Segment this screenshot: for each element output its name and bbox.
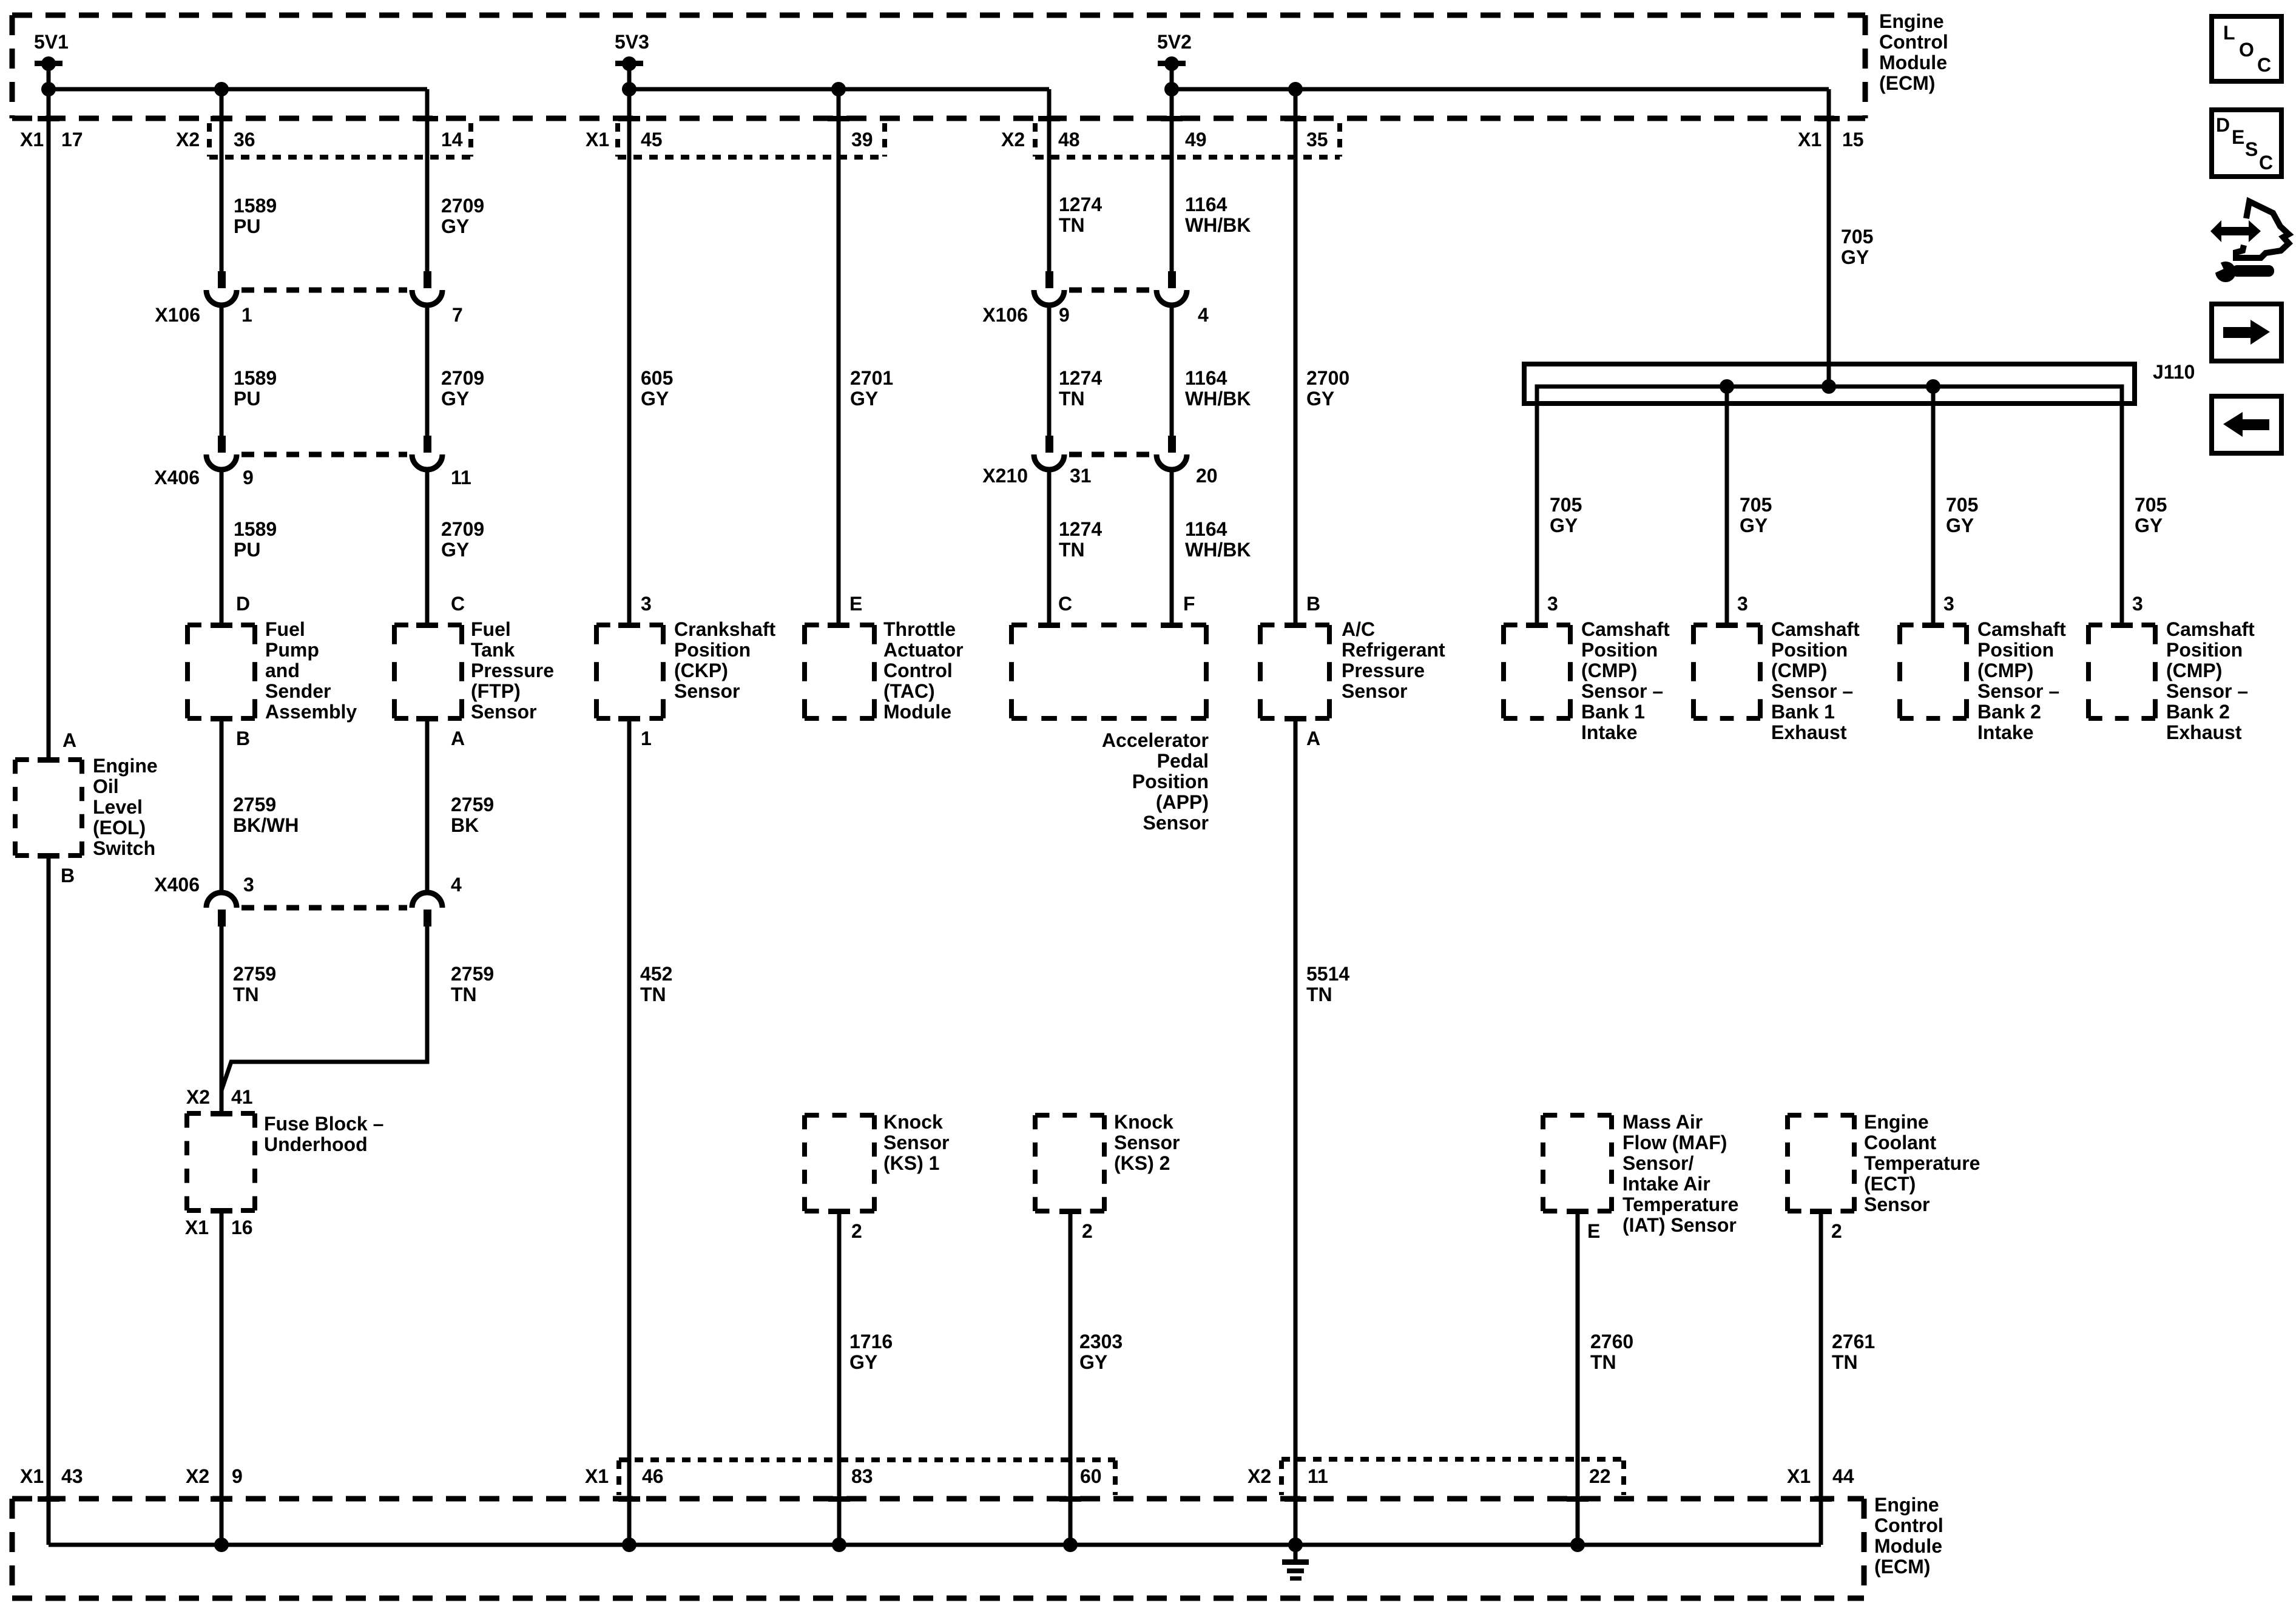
svg-text:Module: Module xyxy=(1874,1535,1942,1557)
svg-text:605: 605 xyxy=(641,367,673,389)
svg-text:705: 705 xyxy=(1946,494,1978,516)
svg-text:Engine: Engine xyxy=(93,755,158,777)
svg-text:(APP): (APP) xyxy=(1156,791,1209,813)
svg-text:A/C: A/C xyxy=(1342,618,1375,640)
svg-text:WH/BK: WH/BK xyxy=(1185,539,1251,561)
svg-text:46: 46 xyxy=(642,1465,664,1487)
svg-text:41: 41 xyxy=(231,1086,253,1108)
svg-text:1274: 1274 xyxy=(1059,367,1102,389)
wire 2759 TN to ECM X2-9 xyxy=(220,1210,224,1545)
component box Engine Coolant Temperature (ECT) Sensor xyxy=(1788,1115,1854,1211)
svg-text:1589: 1589 xyxy=(234,195,277,217)
svg-text:39: 39 xyxy=(851,129,873,150)
svg-text:A: A xyxy=(62,729,76,751)
svg-text:D: D xyxy=(236,593,250,615)
svg-text:Throttle: Throttle xyxy=(883,618,956,640)
svg-text:X1: X1 xyxy=(20,1465,44,1487)
svg-text:15: 15 xyxy=(1842,129,1864,150)
svg-text:11: 11 xyxy=(451,467,471,488)
svg-text:2700: 2700 xyxy=(1306,367,1349,389)
svg-text:1164: 1164 xyxy=(1185,367,1227,389)
svg-text:(CKP): (CKP) xyxy=(674,660,728,681)
svg-text:X406: X406 xyxy=(154,467,200,488)
component box A/C Refrigerant Pressure Sensor xyxy=(1260,625,1329,718)
svg-text:1589: 1589 xyxy=(234,367,277,389)
svg-text:5V2: 5V2 xyxy=(1157,31,1192,53)
wire label 2709 GY row1 xyxy=(441,195,484,237)
svg-text:(ECM): (ECM) xyxy=(1874,1556,1930,1578)
svg-text:2: 2 xyxy=(851,1220,862,1242)
svg-text:7: 7 xyxy=(452,304,463,326)
svg-text:and: and xyxy=(265,660,300,681)
pin stubs on CMP boxes xyxy=(1526,623,2133,628)
svg-text:Sensor –: Sensor – xyxy=(1581,680,1663,702)
wire label 705 GY 3 xyxy=(1946,494,1978,536)
junction dots on ground bus xyxy=(214,1538,1585,1552)
svg-text:Intake Air: Intake Air xyxy=(1622,1173,1710,1195)
svg-text:31: 31 xyxy=(1070,465,1092,487)
svg-text:1: 1 xyxy=(641,727,652,749)
svg-text:Position: Position xyxy=(1977,639,2054,661)
svg-text:35: 35 xyxy=(1306,129,1328,150)
svg-text:5V1: 5V1 xyxy=(34,31,69,53)
svg-text:Exhaust: Exhaust xyxy=(2166,721,2242,743)
svg-text:GY: GY xyxy=(1306,388,1334,410)
wire 5514 TN A/C to ECM xyxy=(1294,718,1298,1545)
svg-text:43: 43 xyxy=(61,1465,83,1487)
svg-text:2701: 2701 xyxy=(850,367,893,389)
wire label 2761 TN xyxy=(1832,1331,1875,1373)
wire 39 to TAC module xyxy=(837,89,841,625)
wire 1274 TN mid xyxy=(1047,305,1052,436)
svg-text:Pump: Pump xyxy=(265,639,319,661)
label A/C Refrigerant Pressure Sensor xyxy=(1342,618,1445,702)
svg-text:E: E xyxy=(1587,1220,1600,1242)
svg-text:Bank 1: Bank 1 xyxy=(1771,701,1835,723)
svg-text:GY: GY xyxy=(441,539,469,561)
svg-text:Sensor: Sensor xyxy=(1114,1132,1180,1153)
svg-text:17: 17 xyxy=(61,129,83,150)
svg-text:Crankshaft: Crankshaft xyxy=(674,618,776,640)
svg-text:A: A xyxy=(451,727,465,749)
svg-text:C: C xyxy=(2259,152,2273,174)
ground symbol xyxy=(1282,1545,1309,1581)
svg-text:X2: X2 xyxy=(186,1465,209,1487)
label CMP Sensor Bank 1 Exhaust xyxy=(1771,618,1860,743)
svg-text:5V3: 5V3 xyxy=(615,31,649,53)
component box Knock Sensor (KS) 2 xyxy=(1035,1115,1104,1211)
wire label 705 GY 4 xyxy=(2135,494,2167,536)
wire label 1164 WH/BK row2 xyxy=(1185,367,1251,410)
svg-text:GY: GY xyxy=(1079,1351,1107,1373)
svg-text:BK/WH: BK/WH xyxy=(233,814,299,836)
svg-text:705: 705 xyxy=(1740,494,1772,516)
svg-text:Temperature: Temperature xyxy=(1864,1152,1980,1174)
icon back arrow box xyxy=(2212,396,2281,453)
component box Camshaft Position (CMP) Sensor - Bank 1 Exhaust xyxy=(1693,625,1760,718)
svg-text:TN: TN xyxy=(233,984,259,1005)
label Knock Sensor (KS) 2 xyxy=(1114,1111,1180,1174)
svg-text:Position: Position xyxy=(1132,771,1209,792)
svg-text:Sensor: Sensor xyxy=(471,701,536,723)
svg-text:2709: 2709 xyxy=(441,518,484,540)
svg-text:2709: 2709 xyxy=(441,195,484,217)
svg-text:Knock: Knock xyxy=(1114,1111,1173,1133)
svg-text:Temperature: Temperature xyxy=(1622,1193,1738,1215)
label MAF/IAT Sensor xyxy=(1622,1111,1738,1236)
svg-text:TN: TN xyxy=(1059,388,1085,410)
svg-text:Sensor –: Sensor – xyxy=(1771,680,1853,702)
svg-text:2759: 2759 xyxy=(451,794,494,815)
svg-text:O: O xyxy=(2239,39,2254,61)
svg-text:Mass Air: Mass Air xyxy=(1622,1111,1703,1133)
svg-text:TN: TN xyxy=(451,984,477,1005)
icon double arrow with wrench xyxy=(2209,201,2289,282)
svg-text:Pressure: Pressure xyxy=(471,660,554,681)
wire label 2709 GY row3 xyxy=(441,518,484,561)
svg-text:1589: 1589 xyxy=(234,518,277,540)
svg-text:D: D xyxy=(2216,114,2230,136)
component box Camshaft Position (CMP) Sensor - Bank 2 Intake xyxy=(1900,625,1967,718)
svg-text:B: B xyxy=(1306,593,1320,615)
component box Engine Oil Level (EOL) Switch xyxy=(15,760,82,856)
svg-text:2759: 2759 xyxy=(233,794,276,815)
wire label 705 GY 1 xyxy=(1550,494,1582,536)
svg-text:44: 44 xyxy=(1832,1465,1854,1487)
svg-text:BK: BK xyxy=(451,814,479,836)
icon LOC box xyxy=(2212,16,2281,81)
wire 1589 PU mid xyxy=(220,305,224,436)
svg-text:TN: TN xyxy=(1306,984,1332,1005)
svg-text:WH/BK: WH/BK xyxy=(1185,388,1251,410)
label Fuel Tank Pressure (FTP) Sensor xyxy=(471,618,554,723)
svg-text:Exhaust: Exhaust xyxy=(1771,721,1847,743)
svg-text:Tank: Tank xyxy=(471,639,515,661)
svg-text:X1: X1 xyxy=(1787,1465,1811,1487)
svg-text:Level: Level xyxy=(93,796,143,818)
wire label 2759 TN right xyxy=(451,963,494,1005)
svg-text:Sensor: Sensor xyxy=(1864,1193,1930,1215)
svg-text:TN: TN xyxy=(1059,214,1085,236)
fuse block pin labels X2 41 xyxy=(186,1086,253,1108)
X406/X210 labels xyxy=(154,465,1217,488)
fuse block pin labels X1 16 xyxy=(185,1217,253,1238)
svg-text:Module: Module xyxy=(1879,52,1947,73)
svg-text:1716: 1716 xyxy=(849,1331,893,1352)
svg-text:(ECM): (ECM) xyxy=(1879,72,1935,94)
svg-text:2: 2 xyxy=(1082,1220,1093,1242)
pin letters below component boxes xyxy=(236,727,1320,749)
pin stubs fuse block xyxy=(211,1111,232,1214)
svg-text:49: 49 xyxy=(1185,129,1207,150)
svg-text:B: B xyxy=(236,727,250,749)
wire 2709 GY lower xyxy=(425,470,430,625)
wire label 5514 TN xyxy=(1306,963,1349,1005)
svg-text:Assembly: Assembly xyxy=(265,701,357,723)
svg-text:X1: X1 xyxy=(585,1465,609,1487)
svg-text:J110: J110 xyxy=(2153,361,2195,383)
wire 14 upper xyxy=(425,89,430,271)
wire 2759 TN left xyxy=(220,926,224,1113)
label ECT Sensor xyxy=(1864,1111,1980,1215)
ECM bottom pin labels xyxy=(20,1465,1854,1487)
pin letter A EOL xyxy=(62,729,76,751)
svg-text:A: A xyxy=(1306,727,1320,749)
component box Fuse Block - Underhood xyxy=(187,1113,255,1210)
svg-text:4: 4 xyxy=(451,874,462,896)
X406 3/4 labels xyxy=(154,874,462,896)
icon DESC box xyxy=(2212,110,2281,177)
svg-text:(TAC): (TAC) xyxy=(883,680,935,702)
svg-text:Fuel: Fuel xyxy=(265,618,305,640)
svg-text:Pressure: Pressure xyxy=(1342,660,1425,681)
svg-text:(CMP): (CMP) xyxy=(1581,660,1637,681)
connector strip X2 (36,14) xyxy=(209,123,471,157)
svg-text:Position: Position xyxy=(1771,639,1848,661)
svg-text:2761: 2761 xyxy=(1832,1331,1875,1352)
svg-text:(CMP): (CMP) xyxy=(1771,660,1827,681)
svg-text:2759: 2759 xyxy=(451,963,494,985)
wire 1589 PU lower xyxy=(220,470,224,625)
wire 5V3 bus xyxy=(629,87,1049,92)
wire 2759 TN right with elbow xyxy=(221,926,427,1090)
svg-text:TN: TN xyxy=(640,984,666,1005)
svg-text:Underhood: Underhood xyxy=(264,1133,368,1155)
component box Knock Sensor (KS) 1 xyxy=(805,1115,874,1211)
svg-text:Sensor –: Sensor – xyxy=(2166,680,2248,702)
svg-text:3: 3 xyxy=(243,874,254,896)
svg-text:Bank 1: Bank 1 xyxy=(1581,701,1645,723)
svg-text:Control: Control xyxy=(883,660,953,681)
svg-text:S: S xyxy=(2245,138,2258,160)
wire EOL B to ECM X1-43 xyxy=(47,856,51,1545)
wire X1-45 to CKP sensor xyxy=(627,89,632,625)
wire label 605 GY xyxy=(641,367,673,410)
node 5V1 xyxy=(34,31,69,89)
inline connector X406 pins 9,11 xyxy=(206,436,442,470)
pin letter B EOL xyxy=(61,865,75,886)
svg-text:X1: X1 xyxy=(185,1217,209,1238)
wire 49 upper xyxy=(1170,89,1174,271)
label Engine Oil Level (EOL) Switch xyxy=(93,755,158,859)
svg-text:Control: Control xyxy=(1879,31,1948,53)
Engine Control Module (ECM) bottom dashed box xyxy=(12,1499,1864,1598)
svg-text:3: 3 xyxy=(1547,593,1558,615)
component box Camshaft Position (CMP) Sensor - Bank 2 Exhaust xyxy=(2088,625,2155,718)
svg-text:22: 22 xyxy=(1589,1465,1611,1487)
wire X2-48 upper xyxy=(1047,89,1052,271)
label Crankshaft Position (CKP) Sensor xyxy=(674,618,776,702)
svg-text:14: 14 xyxy=(441,129,463,150)
svg-text:(FTP): (FTP) xyxy=(471,680,521,702)
ECM top pin labels xyxy=(20,129,1864,150)
svg-text:GY: GY xyxy=(441,388,469,410)
wire 1164 WH/BK lower xyxy=(1170,470,1174,625)
svg-text:Intake: Intake xyxy=(1977,721,2033,743)
svg-text:2303: 2303 xyxy=(1079,1331,1123,1352)
svg-text:Sensor: Sensor xyxy=(1342,680,1407,702)
label Throttle Actuator Control (TAC) Module xyxy=(883,618,964,723)
component box Camshaft Position (CMP) Sensor - Bank 1 Intake xyxy=(1504,625,1570,718)
svg-text:2759: 2759 xyxy=(233,963,276,985)
svg-text:Accelerator: Accelerator xyxy=(1102,729,1209,751)
svg-text:Module: Module xyxy=(883,701,951,723)
wire label 1589 PU row2 xyxy=(234,367,277,410)
node 5V2 xyxy=(1157,31,1192,89)
inline connector X210 pins 31,20 xyxy=(1034,436,1187,470)
svg-text:Sensor/: Sensor/ xyxy=(1622,1152,1693,1174)
svg-text:705: 705 xyxy=(2135,494,2167,516)
svg-text:Camshaft: Camshaft xyxy=(1771,618,1860,640)
connector strip X1 (46,83,60) bottom xyxy=(619,1460,1115,1495)
svg-text:X106: X106 xyxy=(155,304,200,326)
ground bus wire inside ECM xyxy=(49,1543,1821,1547)
wire label 1589 PU row1 xyxy=(234,195,277,237)
svg-text:2: 2 xyxy=(1831,1220,1842,1242)
svg-text:Camshaft: Camshaft xyxy=(1581,618,1670,640)
inline connector X106 pins 9,4 xyxy=(1034,271,1187,305)
pin stubs MAF ECT xyxy=(1567,1209,1832,1214)
svg-text:3: 3 xyxy=(1943,593,1954,615)
wire label 1274 TN row2 xyxy=(1059,367,1102,410)
label CMP Sensor Bank 2 Intake xyxy=(1977,618,2066,743)
wire label 1716 GY xyxy=(849,1331,893,1373)
X106 labels xyxy=(155,304,1209,326)
svg-text:Engine: Engine xyxy=(1879,10,1944,32)
svg-text:E: E xyxy=(2232,126,2244,148)
svg-text:WH/BK: WH/BK xyxy=(1185,214,1251,236)
svg-text:E: E xyxy=(849,593,862,615)
svg-text:(CMP): (CMP) xyxy=(1977,660,2033,681)
svg-text:Sensor: Sensor xyxy=(883,1132,949,1153)
svg-text:4: 4 xyxy=(1198,304,1209,326)
svg-text:(IAT) Sensor: (IAT) Sensor xyxy=(1622,1214,1737,1236)
svg-text:Flow (MAF): Flow (MAF) xyxy=(1622,1132,1727,1153)
wire label 1164 WH/BK row3 xyxy=(1185,518,1251,561)
svg-text:Sensor: Sensor xyxy=(1143,812,1209,834)
svg-text:X406: X406 xyxy=(154,874,200,896)
wire label 2759 BK/WH xyxy=(233,794,299,836)
svg-text:3: 3 xyxy=(1737,593,1748,615)
svg-text:X2: X2 xyxy=(1248,1465,1271,1487)
component box Fuel Tank Pressure (FTP) Sensor xyxy=(394,625,462,718)
svg-text:11: 11 xyxy=(1308,1465,1328,1487)
svg-text:TN: TN xyxy=(1059,539,1085,561)
svg-text:3: 3 xyxy=(641,593,652,615)
svg-text:C: C xyxy=(1058,593,1072,615)
svg-text:C: C xyxy=(451,593,465,615)
connector strip X2 (11,22) bottom xyxy=(1281,1459,1624,1495)
svg-text:9: 9 xyxy=(243,467,254,488)
wire label 2700 GY xyxy=(1306,367,1349,410)
svg-text:L: L xyxy=(2223,22,2235,44)
junction dots on 5V buses xyxy=(41,82,1303,96)
label Fuse Block - Underhood xyxy=(264,1113,383,1155)
icon forward arrow box xyxy=(2212,304,2281,361)
svg-text:Knock: Knock xyxy=(883,1111,943,1133)
svg-text:16: 16 xyxy=(231,1217,253,1238)
svg-text:(CMP): (CMP) xyxy=(2166,660,2222,681)
svg-text:X2: X2 xyxy=(176,129,200,150)
label CMP Sensor Bank 2 Exhaust xyxy=(2166,618,2255,743)
svg-text:5514: 5514 xyxy=(1306,963,1349,985)
svg-text:Bank 2: Bank 2 xyxy=(1977,701,2041,723)
label Engine Control Module (ECM) top xyxy=(1879,10,1948,94)
svg-text:X2: X2 xyxy=(186,1086,210,1108)
svg-text:1: 1 xyxy=(241,304,252,326)
splice pack J110 xyxy=(1524,364,2135,625)
svg-text:48: 48 xyxy=(1058,129,1080,150)
svg-text:X1: X1 xyxy=(20,129,44,150)
svg-text:Fuel: Fuel xyxy=(471,618,511,640)
svg-text:3: 3 xyxy=(2132,593,2143,615)
svg-text:X1: X1 xyxy=(586,129,609,150)
svg-text:GY: GY xyxy=(1550,515,1578,536)
svg-text:X210: X210 xyxy=(982,465,1028,487)
wire 2759 BK/WH xyxy=(220,718,224,893)
component box Mass Air Flow (MAF) / IAT Sensor xyxy=(1543,1115,1612,1211)
svg-text:GY: GY xyxy=(641,388,669,410)
svg-text:Position: Position xyxy=(2166,639,2243,661)
svg-text:1274: 1274 xyxy=(1059,518,1102,540)
svg-text:GY: GY xyxy=(1946,515,1974,536)
svg-text:9: 9 xyxy=(1059,304,1070,326)
svg-text:83: 83 xyxy=(851,1465,873,1487)
svg-text:452: 452 xyxy=(640,963,672,985)
svg-text:705: 705 xyxy=(1841,226,1873,248)
inline connector X106 pins 1,7 xyxy=(206,271,442,305)
wire 2761 TN ECT to ECM xyxy=(1819,1211,1823,1545)
svg-text:705: 705 xyxy=(1550,494,1582,516)
wire 1274 TN lower xyxy=(1047,470,1052,625)
wire 2709 GY mid xyxy=(425,305,430,436)
svg-text:TN: TN xyxy=(1590,1351,1616,1373)
svg-text:C: C xyxy=(2257,54,2271,76)
svg-text:60: 60 xyxy=(1080,1465,1102,1487)
svg-text:GY: GY xyxy=(1841,246,1869,268)
svg-text:(KS) 2: (KS) 2 xyxy=(1114,1152,1170,1174)
svg-text:X106: X106 xyxy=(982,304,1028,326)
wire label 705 GY right xyxy=(1841,226,1873,268)
svg-text:GY: GY xyxy=(850,388,878,410)
svg-text:GY: GY xyxy=(849,1351,877,1373)
label Accelerator Pedal Position (APP) Sensor xyxy=(1102,729,1209,834)
wire X1-17 to EOL switch A xyxy=(47,89,51,760)
wire label 1274 TN row1 xyxy=(1059,194,1102,236)
svg-text:(EOL): (EOL) xyxy=(93,817,146,839)
wire label 2759 TN left xyxy=(233,963,276,1005)
svg-text:2760: 2760 xyxy=(1590,1331,1633,1352)
label Engine Control Module (ECM) bottom xyxy=(1874,1494,1943,1578)
label Fuel Pump and Sender Assembly xyxy=(265,618,357,723)
svg-text:Pedal: Pedal xyxy=(1157,750,1209,772)
svg-text:F: F xyxy=(1183,593,1195,615)
pin stubs knock sensors xyxy=(828,1209,1081,1214)
svg-text:(KS) 1: (KS) 1 xyxy=(883,1152,939,1174)
svg-text:Refrigerant: Refrigerant xyxy=(1342,639,1445,661)
svg-text:Position: Position xyxy=(1581,639,1658,661)
node 5V3 xyxy=(615,31,649,89)
svg-text:Position: Position xyxy=(674,639,751,661)
svg-text:X2: X2 xyxy=(1001,129,1025,150)
svg-text:TN: TN xyxy=(1832,1351,1858,1373)
pin stubs on component boxes row 1 xyxy=(211,623,1306,721)
pin stubs at ECM bottom box top xyxy=(38,1496,1832,1502)
wire label 1589 PU row3 xyxy=(234,518,277,561)
svg-text:Engine: Engine xyxy=(1864,1111,1929,1133)
connector strip X2 (48,49,35) xyxy=(1035,123,1340,157)
svg-text:2709: 2709 xyxy=(441,367,484,389)
